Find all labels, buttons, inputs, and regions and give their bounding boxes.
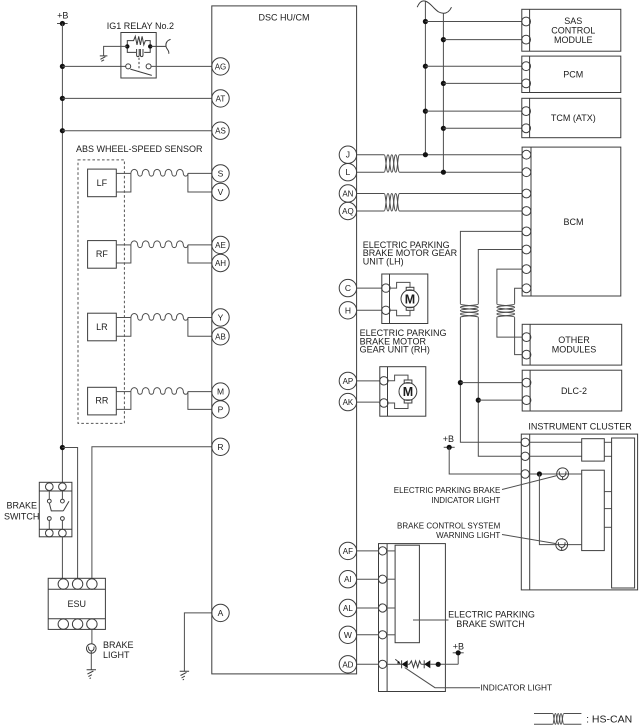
wire C to motor LH (357, 287, 382, 289)
svg-text:RR: RR (95, 396, 108, 406)
twisted pair coil LR (131, 314, 188, 321)
svg-text:DLC-2: DLC-2 (561, 386, 587, 396)
relay switch blade (130, 69, 151, 75)
svg-text:LF: LF (97, 178, 108, 188)
rungs box B to main IC (604, 491, 611, 493)
callout line INDICATOR LIGHT (405, 668, 480, 688)
EPB switch pin 3 (379, 604, 387, 612)
svg-text:RF: RF (96, 249, 108, 259)
pin AF (DSC right) (339, 542, 356, 559)
module OTHER MODULES (522, 324, 622, 365)
pin W (DSC right) (339, 626, 356, 643)
svg-text:AS: AS (215, 127, 226, 136)
cluster box B (middle) (582, 470, 605, 550)
wire break squiggle (buses continue) (417, 1, 451, 13)
cluster main IC box (tall) (612, 438, 635, 588)
wire coil to terminal upper (188, 391, 212, 393)
svg-text:V: V (218, 187, 224, 197)
svg-text:+B: +B (57, 10, 68, 20)
svg-text:AT: AT (216, 94, 226, 103)
twisted pair vertical (cluster feed) (460, 304, 478, 318)
wire DSC to EPB switch (357, 634, 379, 636)
wire rail to AG via relay switch (62, 65, 125, 67)
wire vertical 4 to OTHER MODULES pin2 (515, 317, 523, 354)
svg-text:+B: +B (443, 434, 454, 444)
svg-text:AQ: AQ (342, 207, 354, 216)
svg-text:BRAKE: BRAKE (6, 501, 37, 511)
diode D1 triangle (402, 660, 408, 668)
diode D1 (cathode bar) (401, 660, 403, 668)
cluster pin 3 (521, 470, 529, 478)
wire bus2 to module (443, 82, 521, 84)
sensor LR (wheel-speed) (88, 313, 212, 341)
svg-text:W: W (344, 630, 352, 640)
pin M (DSC left) (212, 383, 229, 400)
svg-text:UNIT (LH): UNIT (LH) (363, 256, 404, 266)
brake switch pin bottom-right (59, 529, 67, 537)
svg-text:AF: AF (343, 547, 353, 556)
svg-text:MODULES: MODULES (552, 345, 597, 355)
wire AP to motor RH (357, 380, 380, 382)
twisted pair coil RF (131, 241, 188, 248)
svg-text:AK: AK (343, 398, 354, 407)
svg-text:J: J (346, 150, 350, 160)
pin AB (DSC left) (212, 328, 229, 345)
svg-text:TCM (ATX): TCM (ATX) (551, 113, 596, 123)
wire relay coil left lead (104, 46, 128, 56)
wire AK to motor RH (357, 401, 380, 403)
switch BRAKE SWITCH (4, 482, 72, 537)
pin L (DSC right) (339, 164, 356, 181)
svg-text:BCM: BCM (564, 217, 584, 227)
brush top (404, 380, 412, 383)
brake switch pin top-right (59, 483, 67, 491)
module TCM (ATX) (522, 98, 621, 137)
wire DSC to EPB switch (357, 578, 379, 580)
node +B (cluster) (443, 434, 455, 450)
twisted pair AN/AQ (384, 194, 399, 212)
pin AH (DSC left) (212, 254, 229, 271)
pin J (DSC right) (339, 146, 356, 163)
brake switch blade right (63, 501, 69, 511)
label ELECTRIC PARKING BRAKE SWITCH (448, 610, 535, 630)
node junction rail/AT row (60, 96, 65, 101)
pin AN (DSC right) (339, 185, 356, 202)
svg-text:ELECTRIC PARKING BRAKE: ELECTRIC PARKING BRAKE (394, 486, 501, 495)
pin AP (DSC right) (339, 372, 356, 389)
diode D2 (cathode bar) (423, 660, 425, 668)
svg-text:R: R (217, 442, 223, 452)
svg-text:M: M (217, 387, 224, 397)
relay switch contact right (146, 64, 151, 69)
brake switch pin top-left (46, 483, 54, 491)
switch ELECTRIC PARKING BRAKE SWITCH (379, 544, 446, 692)
pin AL (DSC right) (339, 599, 356, 616)
wire AT to rail (62, 97, 211, 99)
rung box A to main IC (604, 441, 611, 443)
wire LF lower lead (116, 173, 131, 192)
pin R (DSC left) (212, 438, 229, 455)
cluster pin 1 (521, 438, 529, 446)
pin Y (DSC left) (212, 309, 229, 326)
node relay coil left (125, 44, 129, 48)
node junction rail/AS row (60, 128, 65, 133)
brake switch contact lower-right (61, 517, 65, 521)
wire bus1 to module (425, 21, 521, 23)
pin AT (DSC left) (212, 90, 229, 107)
wire pin2 to brush bottom (388, 403, 408, 409)
wire +B branch to ESU pin2 (62, 448, 77, 579)
ESU pin top1 (58, 579, 68, 589)
wire AN to BCM (357, 193, 385, 195)
svg-text:M: M (403, 385, 413, 399)
pin AI (DSC right) (339, 571, 356, 588)
wire coil to terminal lower (188, 392, 212, 410)
cluster internal: wire pin2 to box A (530, 455, 582, 457)
wire +B power rail vertical (61, 24, 63, 483)
svg-text:AP: AP (343, 377, 354, 386)
pin C (DSC right) (339, 279, 356, 296)
wire AS to rail (62, 130, 211, 132)
wire pin1 to brush top (390, 282, 410, 288)
legend twisted pair = HS-CAN (534, 714, 632, 726)
svg-text:DSC HU/CM: DSC HU/CM (259, 13, 310, 23)
wire internal left column (48, 491, 50, 500)
wire BCM pin7 to vertical 3 (497, 269, 522, 304)
svg-text:MODULE: MODULE (554, 35, 593, 45)
wire RR upper lead (116, 391, 131, 393)
node +B (EPB switch) (453, 641, 464, 664)
svg-text:A: A (218, 608, 224, 618)
wire BCM pin5 to vertical 1 (460, 231, 522, 304)
module BCM (522, 147, 621, 296)
callout line indicator light (502, 476, 557, 490)
EPB switch pin 5 (379, 660, 387, 668)
svg-text:AG: AG (215, 62, 227, 71)
ground DSC terminal A (180, 671, 189, 680)
wire D2 to +B (430, 663, 458, 665)
svg-text:LIGHT: LIGHT (103, 650, 130, 660)
wire R net vertical to ESU pin3 (92, 447, 212, 579)
wire vertical 2 down to cluster pin2 (478, 317, 521, 456)
pin 1 RH (380, 377, 388, 385)
svg-text:WARNING LIGHT: WARNING LIGHT (436, 531, 500, 540)
ABS sensor group dashed box (78, 160, 124, 424)
node bus2 junction (441, 81, 446, 86)
wire resistor to D2 (421, 663, 424, 665)
svg-text:Y: Y (218, 313, 224, 323)
wire CAN bus 2 vertical (442, 13, 444, 172)
node DLC-2 pin2 junction (476, 398, 481, 403)
svg-text:IG1 RELAY No.2: IG1 RELAY No.2 (107, 21, 174, 31)
svg-text:AL: AL (343, 604, 353, 613)
twisted pair J/L (384, 155, 399, 173)
brush top (406, 287, 414, 290)
wire bus2 to module (443, 39, 521, 41)
wire pin1 to brush top (388, 375, 408, 381)
cluster pin 2 (521, 452, 529, 460)
wire vertical 1 down to cluster pin1 (460, 317, 521, 442)
wire LR upper lead (116, 317, 131, 319)
wire pin2 to brush bottom (390, 310, 410, 316)
EPB switch contact block (395, 545, 419, 643)
relay switch contact left (126, 64, 131, 69)
svg-text:SWITCH: SWITCH (4, 512, 40, 522)
pin AS (DSC left) (212, 122, 229, 139)
brake switch pin bottom-left (46, 529, 54, 537)
wire D1 to resistor (408, 663, 410, 665)
node bus2/L junction (441, 170, 446, 175)
diode D2 triangle (424, 660, 430, 668)
svg-text:AI: AI (344, 575, 352, 584)
motor M RH (399, 383, 417, 401)
wire to DLC-2 pin1 (460, 382, 522, 384)
sensor LF (wheel-speed) (88, 169, 212, 197)
cluster internal: wire pin1 to box A (530, 441, 582, 443)
svg-text:H: H (345, 305, 351, 315)
pin 2 RH (380, 399, 388, 407)
wire relay coil right lead squiggle (150, 39, 170, 54)
sensor RR (wheel-speed) (88, 387, 212, 415)
wire coil to terminal upper (188, 244, 212, 246)
node bus1/J junction (423, 152, 428, 157)
callout line EPB switch label (413, 619, 449, 621)
wire LF upper lead (116, 172, 131, 174)
ground relay coil (100, 56, 108, 61)
wire pin to contact block (387, 550, 395, 552)
twisted pair vertical (other modules feed) (497, 304, 515, 318)
wire coil to terminal lower (188, 318, 212, 337)
ESU pin bottom1 (58, 619, 68, 629)
svg-text:INDICATOR LIGHT: INDICATOR LIGHT (431, 496, 500, 505)
node bus1 junction (423, 19, 428, 24)
pin V (DSC left) (212, 183, 229, 200)
svg-text:ELECTRIC PARKING: ELECTRIC PARKING (448, 610, 535, 620)
EPB switch pin 1 (379, 547, 387, 555)
svg-text:AH: AH (215, 259, 226, 268)
wire brake switch to ESU (61, 537, 63, 579)
ECU box ESU (48, 578, 105, 629)
wire J to BCM (CAN-H) (357, 154, 385, 156)
svg-text:ESU: ESU (68, 599, 87, 609)
motor unit LH (382, 274, 428, 324)
wire pin to contact block (387, 578, 395, 580)
module INSTRUMENT CLUSTER box (521, 434, 638, 590)
node +B (top left battery feed) (57, 10, 68, 26)
twisted pair coil LF (131, 169, 188, 176)
node junction rail/brake switch branch (60, 445, 65, 450)
LED arrow tick (395, 659, 399, 662)
coil (relay winding) (127, 46, 150, 56)
wire AD row inside EPB switch (387, 663, 402, 665)
pin AE (DSC left) (212, 236, 229, 253)
wire DSC terminal A to ground (184, 613, 211, 671)
wire BCM pin6 to vertical 2 (478, 250, 522, 304)
wire RF lower lead (116, 245, 131, 263)
wire LR lower lead (116, 318, 131, 337)
wire H to motor LH (357, 309, 382, 311)
pin P (DSC left) (212, 401, 229, 418)
svg-text:AE: AE (215, 241, 226, 250)
pin AG (DSC left) (212, 58, 229, 75)
pin AQ (DSC right) (339, 202, 356, 219)
pin 2 LH (382, 306, 390, 314)
node lamp branch junction (537, 471, 542, 476)
resistor (relay suppression) (127, 36, 150, 46)
motor unit RH (380, 367, 426, 417)
wire bus2 to module (443, 127, 521, 129)
ESU pin top2 (72, 579, 82, 589)
pin AK (DSC right) (339, 393, 356, 410)
brake switch contact upper-left (47, 499, 51, 503)
wire DSC to EPB switch (357, 607, 379, 609)
svg-text:BRAKE: BRAKE (103, 640, 134, 650)
ESU pin bottom3 (87, 619, 97, 629)
ESU pin bottom2 (72, 619, 82, 629)
brush bottom (406, 307, 414, 310)
wire vertical 3 to OTHER MODULES pin1 (497, 317, 522, 337)
pin S (DSC left) (212, 165, 229, 182)
svg-text:AB: AB (215, 332, 226, 341)
brush bottom (404, 400, 412, 403)
wire coil to terminal lower (188, 173, 212, 192)
wire coil to terminal lower (188, 245, 212, 263)
wire CAN bus 1 vertical (424, 2, 426, 155)
module DSC HU/CM (212, 6, 357, 674)
wire DSC to EPB switch (357, 550, 379, 552)
wire branch down to lamp2 (539, 474, 581, 545)
svg-text:P: P (218, 404, 224, 414)
lamp ELECTRIC PARKING BRAKE INDICATOR LIGHT (557, 468, 569, 480)
label ELECTRIC PARKING BRAKE MOTOR GEAR UNIT (RH) (360, 328, 447, 355)
pin H (DSC right) (339, 302, 356, 319)
svg-text:C: C (345, 283, 351, 293)
wire BCM pin8 to vertical 4 (515, 288, 523, 304)
wire RF upper lead (116, 244, 131, 246)
node DLC-2 pin1 junction (458, 380, 463, 385)
label ELECTRIC PARKING BRAKE MOTOR GEAR UNIT (LH) (363, 240, 458, 267)
wire pin3 through lamp1 to box B (530, 473, 582, 475)
svg-text:+B: +B (453, 641, 464, 651)
wire pin to contact block (387, 634, 395, 636)
svg-text:GEAR UNIT (RH): GEAR UNIT (RH) (360, 345, 430, 355)
relay actuation dashed link (138, 58, 140, 71)
module DLC-2 (522, 370, 622, 411)
svg-text:LR: LR (96, 322, 108, 332)
svg-text:M: M (405, 292, 415, 306)
wire ESU to brake light (91, 629, 93, 643)
svg-text:BRAKE CONTROL SYSTEM: BRAKE CONTROL SYSTEM (397, 521, 501, 530)
wire +B to cluster pin3 (449, 447, 521, 474)
callout line warning light (502, 535, 556, 544)
EPB switch pin 2 (379, 575, 387, 583)
lamp BRAKE CONTROL SYSTEM WARNING LIGHT (556, 539, 568, 551)
wire L to BCM (CAN-L) (357, 171, 385, 173)
svg-text:S: S (218, 168, 224, 178)
wire relay switch to AG (151, 65, 212, 67)
lamp BRAKE LIGHT (87, 640, 134, 660)
brake switch contact upper-right (61, 499, 65, 503)
wire RR lower lead (116, 392, 131, 410)
svg-text:AN: AN (342, 190, 353, 199)
sensor RF (wheel-speed) (88, 241, 212, 269)
wire pin to contact block (387, 607, 395, 609)
module SAS CONTROL MODULE (522, 9, 621, 51)
brake switch contact lower-left (47, 517, 51, 521)
node relay coil right (148, 44, 152, 48)
ground brake light (87, 670, 96, 679)
svg-text:ABS WHEEL-SPEED SENSOR: ABS WHEEL-SPEED SENSOR (76, 144, 203, 154)
relay IG1 RELAY No.2 (100, 21, 212, 78)
wire DSC to EPB switch (357, 663, 379, 665)
pin AD (DSC right) (339, 656, 356, 673)
label ELECTRIC PARKING BRAKE INDICATOR LIGHT (394, 486, 501, 505)
wire bus1 to module (425, 110, 521, 112)
node bus1 junction (423, 109, 428, 114)
wire AQ to BCM (357, 210, 385, 212)
node bus2 junction (441, 37, 446, 42)
wire coil to terminal upper (188, 317, 212, 319)
wire coil to terminal upper (188, 172, 212, 174)
pin 1 LH (382, 284, 390, 292)
resistor (indicator) (410, 661, 422, 668)
brake switch blade left (49, 503, 63, 511)
svg-text:AD: AD (342, 660, 353, 669)
module PCM (522, 56, 621, 92)
wire brake light to ground (90, 653, 92, 670)
svg-text:: HS-CAN: : HS-CAN (586, 714, 632, 726)
wire internal right column (61, 491, 63, 500)
ESU pin top3 (87, 579, 97, 589)
svg-text:PCM: PCM (563, 70, 583, 80)
motor M LH (401, 290, 419, 308)
node junction rail/AG row (60, 64, 65, 69)
node bus1 junction (423, 64, 428, 69)
cluster box A (top) (582, 439, 605, 461)
svg-text:L: L (346, 167, 351, 177)
label BRAKE CONTROL SYSTEM WARNING LIGHT (397, 521, 501, 540)
svg-text:INDICATOR LIGHT: INDICATOR LIGHT (481, 683, 553, 693)
svg-text:BRAKE SWITCH: BRAKE SWITCH (456, 619, 525, 629)
EPB switch pin 4 (379, 631, 387, 639)
wire to DLC-2 pin2 (478, 399, 522, 401)
wire bus1 to module (425, 65, 521, 67)
node AD row junction (436, 662, 441, 667)
twisted pair coil RR (131, 388, 188, 395)
pin A (DSC left) (212, 604, 229, 621)
svg-text:INSTRUMENT CLUSTER: INSTRUMENT CLUSTER (528, 422, 632, 432)
node bus2 junction (441, 126, 446, 131)
